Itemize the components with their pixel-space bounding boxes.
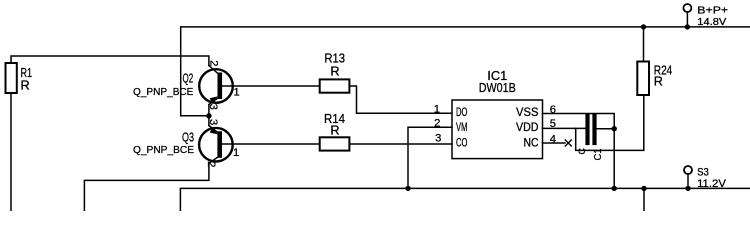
- transistor Q3: [199, 128, 233, 162]
- svg-text:1: 1: [434, 104, 440, 116]
- resistor R13: [320, 79, 350, 92]
- svg-text:R: R: [654, 75, 663, 89]
- svg-text:2: 2: [207, 60, 219, 66]
- svg-text:R: R: [21, 79, 30, 93]
- wire R14 to IC pin3 CO: [349, 143, 452, 145]
- node VSS bus junction: [612, 186, 617, 191]
- node emitter junction: [206, 113, 211, 118]
- svg-text:NC: NC: [524, 137, 539, 149]
- node B+P+ rail junction: [685, 24, 690, 29]
- wire cap right plate to junction: [597, 128, 615, 130]
- wire bottom B- bus: [180, 188, 750, 211]
- resistor R1: [6, 63, 17, 93]
- connector B+P+: [683, 4, 691, 12]
- svg-text:B+P+: B+P+: [697, 5, 728, 16]
- svg-text:1: 1: [233, 147, 239, 159]
- svg-text:3: 3: [435, 133, 441, 145]
- wire B+ top rail: [181, 27, 750, 116]
- wire Q3 collector down-left-down off page: [84, 164, 208, 212]
- wire NC pin4 stub: [543, 142, 566, 144]
- node R24 rail junction: [641, 24, 646, 29]
- svg-text:R13: R13: [324, 52, 345, 66]
- wire junction to Q3 emitter: [208, 116, 210, 126]
- svg-text:VM: VM: [456, 122, 467, 134]
- svg-text:VSS: VSS: [516, 107, 539, 119]
- svg-text:1: 1: [234, 86, 240, 98]
- svg-text:Q_PNP_BCE: Q_PNP_BCE: [133, 145, 194, 156]
- wire Q2 emitter to junction: [208, 105, 210, 116]
- node VM bus junction: [405, 186, 410, 191]
- svg-text:14.8V: 14.8V: [697, 17, 726, 28]
- svg-text:2: 2: [205, 161, 217, 167]
- node cap-VSS junction: [612, 126, 617, 131]
- wire junction down to bus: [613, 129, 615, 189]
- wire rail elbow to emitter junction: [181, 115, 209, 117]
- svg-text:3: 3: [207, 119, 219, 125]
- svg-text:DW01B: DW01B: [479, 80, 516, 95]
- wire VSS pin6 to cap junction: [543, 114, 615, 129]
- wire VDD pin5 to cap left plate: [543, 127, 586, 129]
- node S3 bus junction: [685, 186, 690, 191]
- resistor R24: [637, 62, 649, 96]
- node bus down-branch junction: [641, 186, 646, 191]
- wire R1 bottom: [10, 93, 12, 211]
- svg-text:Q_PNP_BCE: Q_PNP_BCE: [133, 87, 193, 98]
- svg-text:CO: CO: [456, 137, 467, 149]
- no-connect cross on pin 4: [565, 140, 571, 146]
- svg-text:2: 2: [434, 117, 440, 129]
- svg-text:4: 4: [550, 134, 556, 146]
- wire Q3 base to R14: [232, 143, 320, 145]
- capacitor C1: [585, 116, 589, 143]
- op-amp IC1 box: [452, 100, 543, 159]
- svg-text:DO: DO: [456, 107, 467, 119]
- svg-text:VDD: VDD: [516, 122, 539, 134]
- wire VDD branch to R24 bottom: [576, 95, 644, 150]
- wire R24 top to rail: [643, 27, 645, 62]
- wire Q2 base to R13: [232, 85, 320, 87]
- svg-text:Q2: Q2: [183, 72, 194, 86]
- transistor Q2: [199, 69, 233, 103]
- svg-text:11.2V: 11.2V: [697, 178, 726, 190]
- wire bus branch down off page: [643, 188, 645, 211]
- wire R13 to IC pin1 DO: [349, 86, 452, 113]
- wire VM elbow to bottom bus: [408, 127, 452, 188]
- svg-text:R: R: [330, 124, 339, 138]
- connector S3: [684, 166, 692, 174]
- svg-text:R: R: [330, 65, 339, 79]
- svg-text:Q3: Q3: [182, 131, 194, 145]
- resistor R14: [320, 137, 350, 150]
- svg-text:S3: S3: [697, 166, 709, 178]
- wire R1 top to Q2 collector: [11, 56, 209, 66]
